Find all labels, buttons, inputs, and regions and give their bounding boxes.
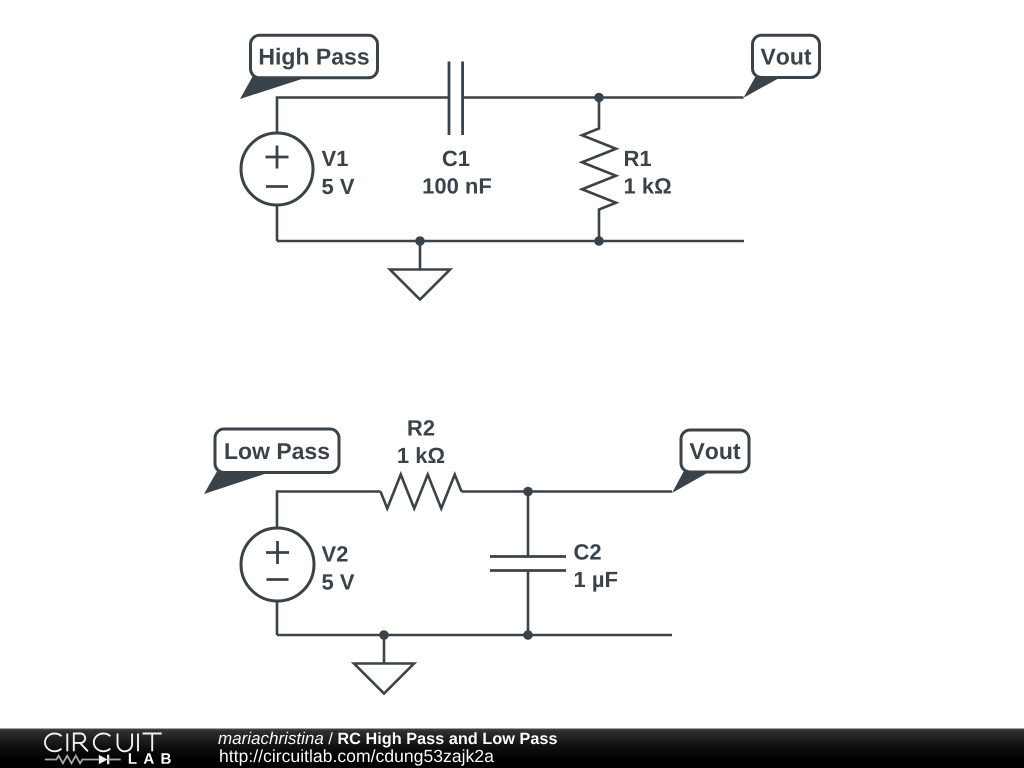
wire bottom ground rail (top circuit) [277,240,744,243]
wire bottom ground rail (bottom circuit) [277,634,672,637]
resistor R1 [582,98,616,242]
label R1 value 1 kOhm [625,178,671,194]
node dot: C2 top junction [523,487,533,497]
node dot: R1 bottom junction [594,236,604,246]
label C1 value 100 nF [424,178,492,194]
wire top-right: C1 right plate to Vout [463,96,744,99]
label V2 [322,546,348,561]
label C1 [443,151,470,167]
label C2 value 1 uF [575,572,617,592]
footer url [220,749,494,766]
label V1 [322,151,348,166]
wire R2 to Vout [462,490,673,493]
wire C2 top lead [527,492,530,557]
ground (top circuit) [390,241,450,300]
node dot: ground junction (top circuit) [415,236,425,246]
capacitor C2 [490,557,566,571]
wire top-left: V2 top to R2 [277,492,381,529]
node dot: R1 top junction [594,93,604,103]
label R2 [408,420,434,435]
resistor R2 [381,475,462,509]
footer title: author and schematic name [218,732,557,748]
node dot: ground junction (bottom circuit) [379,630,389,640]
CircuitLab logo resistor squiggle [45,756,99,764]
wire V1 bottom lead [276,205,279,241]
CircuitLab logo LAB [129,753,171,764]
flag "Vout" (bottom) [672,430,749,493]
wire V2 bottom lead [276,601,279,635]
CircuitLab logo wordmark CIRCUIT [45,734,162,752]
label R1 [625,151,651,166]
wire top-left: V1 top to C1 left plate [277,98,449,134]
CircuitLab logo diode [99,755,121,765]
flag "Vout" (top) [744,35,820,97]
flag "Low Pass" [204,429,339,494]
flag "High Pass" [240,35,378,99]
voltage source V2 [241,528,314,601]
voltage source V1 [241,133,313,205]
wire C2 bottom lead [527,571,530,636]
ground (bottom circuit) [354,635,414,694]
label V1 value 5 V [322,179,354,194]
node dot: C2 bottom junction [523,630,533,640]
capacitor C1 [449,62,463,136]
label R2 value 1 kOhm [398,447,444,463]
label V2 value 5 V [322,574,354,589]
label C2 [574,544,600,560]
